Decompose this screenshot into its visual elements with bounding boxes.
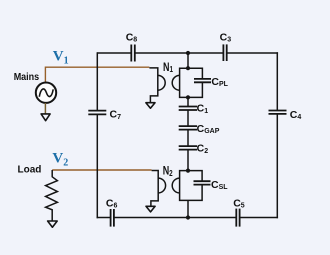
source AC mains	[36, 83, 56, 103]
capacitor C2	[179, 143, 208, 155]
wire top rail right segment	[227, 52, 278, 54]
wire left rail upper segment	[96, 52, 98, 110]
svg-text:Mains: Mains	[14, 72, 40, 83]
capacitor CGAP	[179, 123, 220, 135]
svg-text:Load: Load	[18, 164, 42, 175]
wire N2 box to bottom rail	[187, 200, 189, 217]
wire source to ground (brown)	[44, 103, 46, 114]
capacitor CSL	[194, 179, 229, 191]
ground load	[48, 221, 58, 227]
wire from top rail to N1 box	[187, 53, 189, 68]
node top-rail centre junction	[186, 51, 190, 55]
capacitor C7	[88, 109, 121, 121]
wire right rail lower segment	[276, 114, 278, 218]
wire CGAP to C2	[187, 130, 189, 147]
ground N1 winding	[146, 103, 155, 109]
wire right rail upper segment	[276, 52, 278, 110]
node N1 box top junction	[186, 66, 190, 70]
capacitor C5	[233, 197, 245, 226]
node N1 box bottom junction	[186, 95, 190, 99]
capacitor C6	[106, 197, 118, 226]
capacitor C8	[126, 31, 138, 61]
capacitor CPL	[194, 76, 229, 88]
winding N2 load side	[151, 171, 166, 207]
capacitor C4	[269, 109, 302, 121]
wire bottom rail middle segment	[114, 217, 236, 219]
transformer N2 secondary winding box	[172, 171, 202, 201]
wire V1 sense (orange)	[45, 67, 149, 83]
ground mains	[41, 114, 50, 121]
transformer N1 primary winding box	[172, 68, 202, 97]
wire V2 sense (orange)	[52, 169, 151, 171]
node N2 box top junction	[186, 169, 190, 173]
wire bottom rail left segment	[97, 217, 111, 219]
wire C2 to N2 box	[187, 150, 189, 171]
ground N2 winding	[146, 206, 155, 212]
wire N1 box to C1	[187, 97, 189, 106]
capacitor C3	[220, 31, 232, 61]
wire left rail lower segment	[96, 114, 98, 218]
wire bottom rail right segment	[240, 217, 278, 219]
wire C1 to CGAP	[187, 110, 189, 126]
wire top rail middle segment	[135, 52, 224, 54]
node bottom-rail centre junction	[186, 215, 190, 219]
capacitor C1	[179, 102, 208, 114]
resistor load	[46, 170, 58, 221]
wire top rail left segment	[97, 52, 131, 54]
winding N1 mains side	[149, 68, 165, 103]
